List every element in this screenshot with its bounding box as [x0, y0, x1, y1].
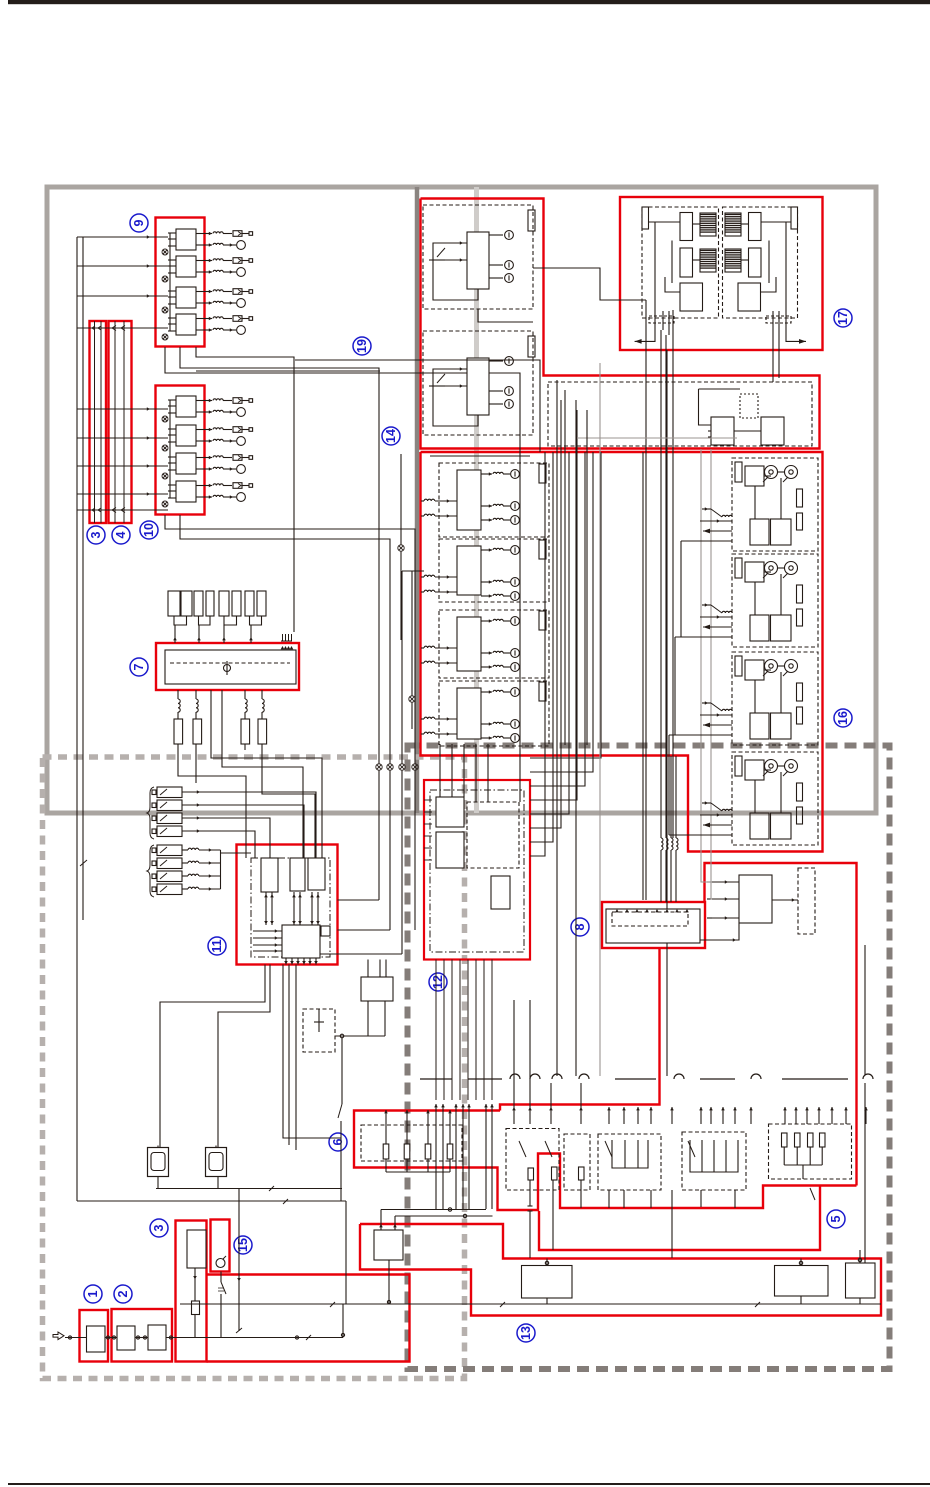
- svg-text:3: 3: [152, 1224, 166, 1231]
- fuse box 7 body: [165, 650, 296, 684]
- box 6 resistor at 450: [447, 1144, 453, 1159]
- red group box 13 (horn/ground units): [360, 1224, 881, 1316]
- svg-text:12: 12: [431, 975, 445, 989]
- box 11 bottom arrow: [315, 958, 317, 965]
- fusible link arrow: [197, 803, 200, 807]
- harness bundle below box 12: [475, 960, 477, 1101]
- fuse and diode row of relay K9-2: [196, 260, 212, 262]
- wiper motor block right: [738, 283, 761, 311]
- box 11 bottom arrow: [297, 958, 299, 965]
- box 12 edge tick: [424, 799, 432, 801]
- right column chain tap 1: [681, 540, 732, 542]
- box 13 unit 2: [775, 1266, 829, 1297]
- switch feed arrow: [623, 1107, 625, 1124]
- switch feed arrow: [671, 1107, 673, 1124]
- wire splice continuation 2: [389, 770, 391, 930]
- box 11 module 3: [308, 858, 325, 890]
- coil below fuse box: [262, 699, 264, 712]
- red group box 14 (head lamp relays): [421, 199, 820, 449]
- harness run from box 12: [530, 452, 569, 814]
- feed wire to relay group 9: [77, 295, 168, 297]
- switch feed arrow: [784, 1107, 786, 1124]
- switch feed arrow: [806, 1107, 808, 1124]
- comb connector arrow: [284, 646, 288, 649]
- box 11 cpu square: [282, 925, 320, 958]
- box 14 lower dashed box: [548, 382, 812, 446]
- box 11 left input: [253, 930, 282, 932]
- svg-text:16: 16: [836, 711, 850, 725]
- module M5 output: [772, 899, 798, 901]
- box 8 pin arrow: [675, 909, 679, 912]
- svg-text:15: 15: [236, 1238, 250, 1252]
- red group box 10 (relay block lower): [156, 386, 205, 515]
- red group box 5 right outline: [705, 863, 857, 1186]
- fuse F181: [181, 591, 192, 616]
- red group box 4 (bus bar right): [109, 321, 132, 523]
- red group box 3 lower (ignition): [176, 1221, 207, 1362]
- box 16 left feed wire 2: [411, 571, 413, 696]
- relay K10-4: [176, 481, 196, 502]
- splice under relay K9-1: [162, 249, 168, 255]
- wire below fuse box: [261, 690, 263, 699]
- switch box D comb: [690, 1140, 738, 1172]
- svg-text:8: 8: [573, 923, 587, 930]
- box 12 edge tick: [424, 835, 432, 837]
- floor harness dashed gray frame left: [43, 757, 465, 1379]
- gap long wire 2: [672, 310, 674, 838]
- gray harness wire horizontal: [577, 437, 737, 439]
- box 11 right run 3: [320, 953, 402, 955]
- switch feed arrow: [550, 1107, 552, 1124]
- wiper relay R1: [749, 213, 762, 241]
- box 11 bottom arrow: [303, 958, 305, 965]
- box 6 through feed wire: [491, 1104, 493, 1209]
- blue circled label 1: [84, 1285, 102, 1303]
- blue circled label 15: [234, 1236, 252, 1254]
- box 6 resistor at 386: [383, 1144, 389, 1159]
- box 17 output pair right: [772, 311, 774, 382]
- feed wire bottom row: [77, 509, 168, 511]
- box 11 left input: [253, 950, 282, 952]
- switch feed arrow: [700, 1107, 702, 1124]
- harness run from box 12: [530, 452, 553, 842]
- bottom run drop: [345, 1201, 347, 1304]
- box 16 heater unit R4: [732, 752, 818, 845]
- switch feed arrow: [513, 1107, 515, 1124]
- switch feed arrow: [637, 1107, 639, 1124]
- fuse and diode row of relay K9-1: [196, 233, 212, 235]
- battery terminal arrow: [53, 1332, 64, 1340]
- box 6 dashed enclosure: [361, 1125, 462, 1161]
- blue circled label 5: [827, 1210, 845, 1228]
- blue circled label 7: [130, 658, 148, 676]
- switch feeder drop 3: [550, 1083, 552, 1107]
- splice under relay K10-2: [162, 445, 168, 451]
- svg-text:6: 6: [331, 1138, 345, 1145]
- switch drop wire 2: [552, 1180, 554, 1250]
- blue circled label 16: [834, 709, 852, 727]
- box 12 lower module: [491, 876, 510, 909]
- switch feed arrow: [865, 1107, 867, 1124]
- box 14 interconnect wire: [478, 309, 533, 322]
- blue circled label 19: [353, 337, 371, 355]
- harness run from box 12: [530, 452, 601, 758]
- box 13 unit 1: [522, 1266, 573, 1299]
- box 11 right run 2: [338, 929, 391, 931]
- fusible link output wire: [182, 831, 255, 858]
- top section long wire 1: [295, 360, 540, 452]
- box 11 bus arrow pair: [265, 892, 267, 925]
- wire from group 10 run B: [180, 515, 390, 764]
- svg-text:9: 9: [132, 219, 146, 226]
- wire from group 10 run A: [165, 515, 415, 764]
- feed arrow: [147, 264, 150, 268]
- box 16 left splice 2: [409, 696, 415, 702]
- blue circled label 14: [382, 427, 400, 445]
- switch dashed box A: [506, 1129, 559, 1191]
- link group B collector: [220, 850, 222, 889]
- switch feed arrow: [580, 1107, 582, 1124]
- ignition switch body: [187, 1230, 206, 1268]
- fusible link B4: [157, 884, 182, 895]
- middle vertical harness 4: [586, 410, 588, 745]
- box 6 resistor lower wire: [385, 1159, 387, 1172]
- box 6 resistor at 428: [425, 1144, 431, 1159]
- box 8 pin arrow: [615, 909, 619, 912]
- fuse feed arrow: [249, 637, 253, 640]
- svg-text:11: 11: [210, 939, 224, 952]
- module M5 input: [712, 917, 739, 919]
- harness bundle below box 12: [443, 960, 445, 1101]
- fuse and diode row of relay K10-3: [196, 457, 212, 459]
- switch drop wire 6: [608, 1190, 610, 1208]
- box 12 relay 1: [436, 797, 464, 827]
- fuse pair join wire: [199, 616, 211, 625]
- switch lever B: [545, 1141, 552, 1157]
- box 6 through feed wire: [485, 1104, 487, 1209]
- wire below fuse box: [195, 690, 197, 699]
- fuse feed wire: [250, 625, 252, 643]
- feed wire to relay group 10: [77, 437, 168, 439]
- wire into link fuse: [195, 712, 197, 719]
- indicator lamp of relay K9-1: [196, 244, 212, 246]
- box 6 resistor lower wire: [449, 1159, 451, 1172]
- box 8 pin arrow: [685, 909, 689, 912]
- right column daisy chain: [680, 541, 682, 637]
- blue circled label 17: [834, 309, 852, 327]
- main bus wire B: [82, 237, 84, 920]
- fuse box internal connector symbol: [224, 665, 231, 672]
- fusible link output wire: [182, 792, 316, 858]
- fuse F206: [206, 591, 214, 616]
- fuse and diode row of relay K9-4: [196, 318, 212, 320]
- fuse box internal dashed line: [170, 662, 290, 664]
- red group box 9 (relay block upper): [156, 218, 205, 347]
- harness run from box 12: [530, 400, 561, 828]
- red group box 6 outline with lower links: [354, 1111, 857, 1211]
- box 11 bottom arrow: [309, 958, 311, 965]
- fuse feed arrow: [197, 637, 201, 640]
- box 11 bus arrow pair: [271, 892, 273, 925]
- battery feed wire: [65, 1337, 87, 1339]
- harness bundle below box 12: [435, 960, 437, 1101]
- harness run from box 12: [530, 410, 577, 800]
- wire link row join A: [178, 744, 246, 858]
- splice under relay K9-2: [162, 276, 168, 282]
- switch feed arrow: [734, 1107, 736, 1124]
- box 12 edge tick: [424, 859, 432, 861]
- feed wire rise: [342, 1304, 344, 1338]
- box 8 pin arrow: [665, 909, 669, 912]
- switch feed arrow: [795, 1107, 797, 1124]
- switch drop wire 8: [700, 1190, 702, 1207]
- bus box connector marks: [92, 326, 125, 331]
- wire fuse box down-right B: [222, 690, 303, 858]
- switch drop wire 4: [623, 1190, 625, 1208]
- switch drop wire 5: [734, 1190, 736, 1208]
- red group box 15 (key cylinder): [211, 1220, 230, 1272]
- box 14 lower wires: [734, 430, 761, 432]
- fusible link arrow: [197, 816, 200, 820]
- fuse F245: [245, 591, 254, 616]
- box 16 lamp unit L3: [439, 610, 549, 678]
- bus B break mark: [80, 860, 87, 866]
- box 12 edge tick: [424, 811, 432, 813]
- page bottom rule: [8, 1483, 930, 1485]
- relay K10-2: [176, 425, 196, 446]
- svg-text:2: 2: [116, 1290, 130, 1297]
- coil below fuse box: [196, 699, 198, 712]
- harness run from box 12: [530, 452, 545, 856]
- comb connector: [281, 634, 292, 641]
- box 14 lower feed wire: [699, 389, 712, 425]
- box 6 resistor at 407: [404, 1144, 410, 1159]
- fusible link B1: [157, 845, 182, 856]
- box 8 dashed inner: [612, 912, 688, 926]
- cab harness solid gray frame: [47, 187, 876, 813]
- fuse and diode row of relay K9-3: [196, 291, 212, 293]
- blue circled label 13: [517, 1324, 535, 1342]
- fusible link coil: [182, 849, 188, 851]
- wire into link fuse: [177, 712, 179, 719]
- link group B feed to box 11: [221, 852, 252, 854]
- connector B: [206, 1148, 227, 1177]
- box 12 dash-dot enclosure: [430, 790, 524, 952]
- wire below fuse box: [177, 690, 179, 699]
- box 12 edge tick: [424, 847, 432, 849]
- main bus wire A: [76, 237, 78, 1201]
- feed arrow: [147, 294, 150, 298]
- red group box 3 (bus bar left): [90, 321, 107, 523]
- heater drop wire: [864, 1083, 866, 1263]
- middle vertical harness 5: [642, 452, 644, 900]
- wire into link fuse: [244, 712, 246, 719]
- bus wire 2 inside box 4: [123, 321, 125, 523]
- box 13 relay ground: [388, 1260, 390, 1304]
- switch lever D: [688, 1141, 695, 1157]
- ignition fuse wire: [194, 1315, 196, 1338]
- fuse feed wire: [174, 625, 176, 643]
- wire into link fuse: [261, 712, 263, 719]
- box 11 sub square: [321, 926, 330, 936]
- module M5 feed wire 2: [711, 449, 712, 899]
- blue circled label 2: [114, 1285, 132, 1303]
- splice under relay K10-4: [162, 501, 168, 507]
- key cylinder circle: [216, 1259, 225, 1268]
- relay K9-3: [176, 287, 196, 308]
- middle vertical harness 3: [575, 400, 577, 1076]
- harness crossing row with loops: [420, 1074, 873, 1079]
- switch feed arrow: [831, 1107, 833, 1124]
- module M5 feed wire 1: [701, 449, 712, 882]
- link fuse at 193: [193, 719, 202, 744]
- box 6 through feed wire: [435, 1104, 437, 1209]
- fusible link A1: [157, 787, 182, 798]
- box 8 pin arrow: [635, 909, 639, 912]
- comb connector arrow: [281, 646, 285, 649]
- fusible link A4: [157, 826, 182, 837]
- relay K9-1: [176, 229, 196, 250]
- module M5: [739, 875, 772, 923]
- red link box 8 tail: [500, 948, 660, 1111]
- box 6 resistor feed: [385, 1110, 387, 1144]
- red group box 2 (fusible links): [112, 1309, 173, 1362]
- svg-text:17: 17: [836, 311, 850, 325]
- box 16 heater unit R2: [732, 554, 818, 647]
- box 13 relay: [374, 1230, 403, 1260]
- ignition fuse: [192, 1301, 200, 1315]
- wire from group 9 to box 12: [165, 347, 520, 802]
- fusible link coil: [182, 862, 188, 864]
- wiper relay R2: [749, 248, 762, 277]
- relay under box 12 wires: [367, 1001, 369, 1036]
- switch feeder drop 4: [580, 1083, 582, 1107]
- blue circled label 9: [130, 214, 148, 232]
- box 17 bottom connector left: [649, 316, 674, 323]
- box 13 unit 2 wires: [800, 1259, 802, 1266]
- box 11 right run 1: [338, 899, 380, 901]
- group 10 collector wire: [169, 400, 171, 498]
- box 11 bus arrow pair: [317, 892, 319, 925]
- gap long wire 1: [666, 350, 668, 1076]
- box 6 resistor feed: [449, 1110, 451, 1144]
- svg-text:4: 4: [114, 531, 128, 538]
- wire below box 11 down C: [283, 965, 341, 1139]
- box 16 lamp unit L1: [439, 463, 549, 537]
- box 14 headlamp relay unit 2: [423, 331, 533, 435]
- svg-text:19: 19: [355, 339, 369, 353]
- right column chain tap 2: [675, 636, 732, 638]
- box 16 heater unit R1: [732, 458, 818, 551]
- fusible link B3: [157, 871, 182, 882]
- battery box: [87, 1326, 106, 1352]
- wire from group 9 to fuse comb: [196, 347, 294, 632]
- relay K10-3: [176, 453, 196, 474]
- main drop wire with switch: [341, 1038, 343, 1104]
- feed arrow: [147, 436, 150, 440]
- switch feed arrow: [722, 1107, 724, 1124]
- red group box 1 (battery): [80, 1310, 109, 1362]
- fusible link main 1: [117, 1326, 135, 1350]
- harness bundle below box 12: [491, 960, 493, 1101]
- box 17 wires left: [649, 221, 681, 223]
- box 11 module 1: [261, 858, 278, 892]
- relay under box 12: [361, 977, 393, 1001]
- box 8 coil wire: [675, 756, 677, 838]
- box 8 coil wire: [665, 335, 667, 838]
- wire link down D: [262, 744, 315, 858]
- group 9 collector wire: [169, 233, 171, 331]
- indicator lamp of relay K10-2: [196, 440, 212, 442]
- wire splice continuation 4: [414, 770, 416, 930]
- body divider light gray bar: [474, 187, 479, 813]
- box 8 pin arrow: [655, 909, 659, 912]
- red group box lower-center: [207, 1275, 410, 1362]
- red group box 8 (relay box): [602, 902, 705, 948]
- switch feed arrow: [529, 1107, 531, 1124]
- wire link down C: [244, 744, 246, 750]
- fuse and diode row of relay K10-1: [196, 400, 212, 402]
- brace for link group A: [147, 787, 154, 839]
- fuse F194: [194, 591, 203, 616]
- box 17 output pair left: [662, 311, 664, 330]
- switch feed arrow: [608, 1107, 610, 1124]
- sensor inner wire: [318, 1009, 320, 1032]
- heater resistor: [782, 1133, 788, 1147]
- box 11 bottom arrow: [285, 958, 287, 965]
- fusible link output wire: [182, 818, 270, 858]
- fusible link arrow: [197, 829, 200, 833]
- bus wires inside box 3: [94, 321, 96, 523]
- wire below fuse box: [244, 690, 246, 699]
- wire below box 11 down E: [295, 965, 297, 1151]
- gray harness wire vertical: [599, 363, 601, 1076]
- red group box 12 (junction block): [424, 780, 530, 960]
- box 12 top feed wire: [451, 744, 453, 797]
- feed arrow: [147, 464, 150, 468]
- switch lever E: [810, 1188, 815, 1200]
- fusible link output wire: [182, 805, 304, 858]
- wiper relay L2: [680, 248, 693, 277]
- page top black bar: [8, 0, 930, 4]
- relay K9-2: [176, 256, 196, 277]
- box 13 relay feeds: [379, 1224, 383, 1227]
- svg-text:10: 10: [142, 523, 156, 537]
- relay 13 feed drops: [380, 1210, 382, 1231]
- switch long drop: [671, 1190, 673, 1258]
- fuse feed arrow: [173, 637, 177, 640]
- switch feeder drop 1: [513, 1000, 515, 1107]
- middle vertical harness 1: [556, 380, 558, 1076]
- box 11 bus arrow pair: [293, 892, 295, 925]
- link fuse at 258: [258, 719, 267, 744]
- feed arrow: [147, 492, 150, 496]
- indicator lamp of relay K10-1: [196, 411, 212, 413]
- wire splice continuation: [378, 770, 380, 900]
- fuse and diode row of relay K10-2: [196, 429, 212, 431]
- switch feed arrow: [818, 1107, 820, 1124]
- blue circled label 3: [87, 526, 105, 544]
- box 12 relay 2: [436, 832, 464, 868]
- box 17 dashed sub-box left: [642, 207, 719, 318]
- red group box 7 (fuse box): [156, 643, 299, 690]
- box 11 left input: [253, 944, 282, 946]
- harness bundle below box 12: [459, 960, 461, 1101]
- splice row: [376, 764, 382, 770]
- link fuse at 174: [174, 719, 183, 744]
- wiper motor winding RT: [725, 213, 741, 236]
- box 6 resistor lower wire: [406, 1159, 408, 1172]
